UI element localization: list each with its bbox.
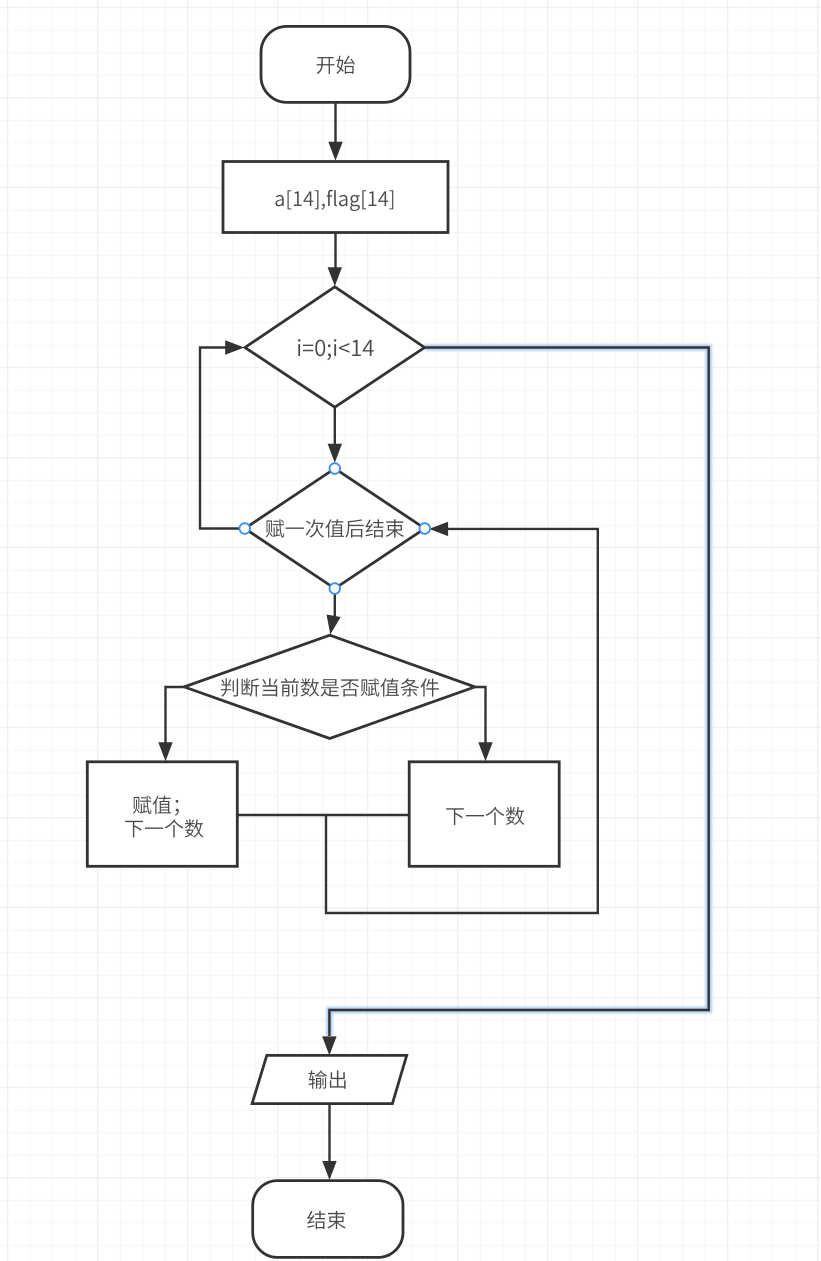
node box 下一个数 [409, 762, 559, 867]
text fuzhi-line1 [133, 796, 179, 816]
node 输出 (parallelogram) [252, 1055, 407, 1103]
node 结束 (end, rounded rect) [253, 1181, 403, 1258]
node diamond 赋一次值后结束 [245, 469, 425, 589]
wire diamond3-left→box1 [158, 687, 184, 761]
wire 输出→结束 [322, 1104, 336, 1180]
wire box1→box2 [237, 814, 409, 816]
text jieshu [307, 1211, 346, 1229]
text xiayige [446, 807, 524, 825]
text fuzhi-line2 [125, 819, 203, 837]
text fuyici [266, 519, 405, 537]
node 开始 (start, rounded rect) [261, 26, 410, 102]
arrowhead into 输出 [322, 1036, 336, 1055]
wire diamond2→diamond3 [323, 594, 340, 636]
node diamond 判断当前数是否赋值条件 [184, 635, 475, 738]
anchor diamond2 right [420, 523, 431, 534]
text i014 [298, 339, 374, 360]
wire box1→diamond2 right (via bottom) [326, 522, 598, 913]
text shuchu [309, 1070, 346, 1088]
node box 赋值；下一个数 [87, 762, 237, 867]
wire loop-back: diamond2 left → diamond1 left [200, 340, 245, 528]
wire loop-exit: diamond1 right around to 输出 (selected, blue halo) [329, 348, 708, 1037]
anchor diamond2 bottom [330, 583, 341, 594]
wire diamond3-right→box2 [475, 687, 493, 761]
node a[14],flag[14] (process rect) [223, 162, 448, 233]
node diamond i=0;i<14 [245, 287, 425, 407]
text aflag [275, 190, 393, 211]
wire 开始→rectA [328, 102, 342, 161]
wire diamond1→diamond2 [328, 407, 342, 463]
wire rectA→diamond1 [328, 232, 342, 286]
text panduan [221, 678, 439, 697]
text kaishi [317, 56, 355, 74]
anchor diamond2 left [240, 523, 251, 534]
anchor diamond2 top [330, 463, 341, 474]
